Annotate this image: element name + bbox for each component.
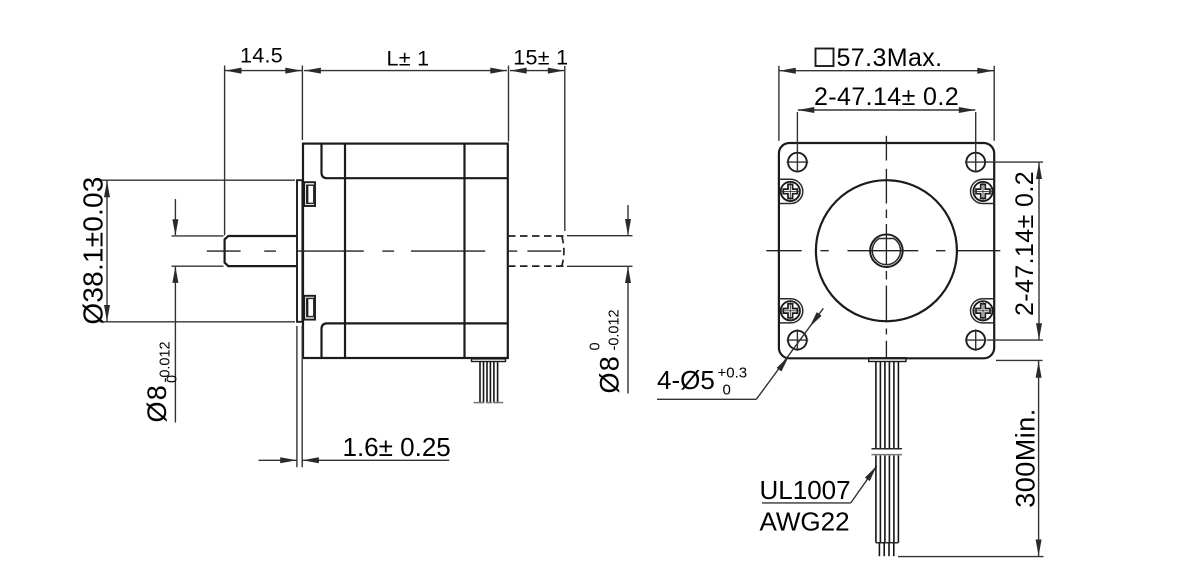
pilot boss circle front view [816,180,957,321]
dim dia8 left upper arrow line [174,199,176,235]
dim 38.1 line [106,181,108,322]
dim dia8 right top extension [567,235,633,237]
upper mounting tab inner [307,185,314,203]
dim dia8 right upper arrow line [627,205,629,235]
lower mounting tab inner [307,298,314,316]
svg-text:Ø8: Ø8 [142,384,172,422]
svg-text:2-47.14± 0.2: 2-47.14± 0.2 [1011,171,1039,316]
motor body side view [303,144,508,358]
lead wires left view [479,362,481,403]
svg-text:UL1007: UL1007 [760,475,851,505]
shaft centerline [207,250,241,252]
screw pocket bottom-right [971,299,995,323]
dim 14.5 / L shared extension line at body face [301,66,303,141]
screw bottom-left [781,301,800,320]
dim 1.6 line right segment [303,459,450,461]
svg-text:57.3Max.: 57.3Max. [837,44,943,72]
front endbell parting line vertical [344,144,346,358]
wire break marks [872,448,903,450]
lower mounting tab outer [304,296,315,320]
dim 38.1 extension line bottom [100,321,296,323]
mounting hole top-left [788,153,807,172]
screw pocket bottom-left [779,299,803,323]
stripped conductor ends [878,543,880,557]
wire exit connector front view [869,358,906,362]
upper mounting tab outer [304,182,315,206]
dim 14.5 extension line left (shaft tip) [224,66,226,236]
svg-text:1.6± 0.25: 1.6± 0.25 [343,432,451,462]
pilot boss plate [297,180,302,322]
dim 300min line [1038,361,1040,556]
dim 57.3 line [779,70,994,72]
dim 57.3 square symbol [816,49,834,67]
dim L extension line right (body rear face) [508,66,510,142]
vertical centerline front view [885,136,887,161]
bottom-right hole vertical tick [975,329,977,351]
wire exit connector left view [472,359,506,362]
bottom-left hole vertical tick [796,329,798,351]
svg-text:15± 1: 15± 1 [513,46,568,70]
dim 300min top extension [996,359,1043,361]
screw pocket top-right [971,179,995,203]
shaft with chamfer [225,236,297,266]
svg-text:14.5: 14.5 [240,44,283,68]
dim 2-47.14 top line [798,109,976,111]
svg-text:Ø8: Ø8 [595,355,625,393]
dim 14.5 line [225,70,303,72]
front plate bottom contour with rounded corner [322,323,508,358]
svg-text:+0.3: +0.3 [718,365,748,382]
dim 38.1 extension line top [100,179,296,181]
dim L line [304,70,507,72]
dim 1.6 line left segment [259,459,297,461]
shaft outer circle [870,234,903,267]
shaft inner circle with flat [872,239,900,265]
label 4-dia5 underline [657,398,756,400]
dim dia8 left lower arrow line [174,266,176,422]
lead wires front view lower [875,456,877,543]
dim dia8 right bottom extension [567,265,633,267]
dim 14.5 arrows [225,68,242,74]
rear shaft hidden top line [508,235,564,237]
label UL underline [762,502,851,504]
svg-text:-0.012: -0.012 [607,309,623,350]
front plate top contour with rounded corner [322,144,508,179]
motor front square [779,143,994,358]
label UL leader [851,466,877,503]
mounting hole top-right [966,153,985,172]
mounting hole bottom-left [788,331,807,350]
dim 15 line [510,70,564,72]
svg-text:300Min.: 300Min. [1011,408,1041,508]
upper tab inner left thick edge [306,185,308,203]
svg-text:2-47.14± 0.2: 2-47.14± 0.2 [814,83,959,111]
dim 15 extension line right (rear shaft end) [564,66,566,231]
dim 300min bottom extension [898,556,1044,558]
svg-text:4-Ø5: 4-Ø5 [657,365,715,395]
mounting hole bottom-right [966,331,985,350]
rear endbell parting line vertical [463,144,465,358]
wire jacket end [876,542,899,544]
svg-text:0: 0 [588,342,604,350]
screw bottom-right [973,301,992,320]
screw pocket top-left [779,179,803,203]
wire end ticks left view [474,402,485,404]
dim 2-47.14 right extension lines [986,161,1043,163]
dim dia8 right lower arrow line [627,267,629,394]
rear shaft hidden bottom line [508,265,564,267]
horizontal centerline front view [766,250,801,252]
dim 57.3 extension lines [778,66,780,141]
lead wires front view upper [875,362,877,449]
svg-text:-0.012: -0.012 [158,341,174,382]
screw top-left [781,182,800,201]
dim L arrows [304,68,321,74]
rear shaft hidden end cap [562,236,564,266]
dim 2-47.14 top extension lines through holes [796,112,798,172]
dim 15 arrows [510,68,527,74]
screw top-right [973,182,992,201]
svg-text:0: 0 [723,382,731,399]
dim 1.6 extension line left [296,326,298,467]
svg-text:AWG22: AWG22 [760,507,850,537]
dim dia8 left shaft-bottom extension [172,265,224,267]
dim dia8 left shaft-top extension [172,235,224,237]
svg-text:L± 1: L± 1 [387,47,430,71]
svg-text:Ø38.1±0.03: Ø38.1±0.03 [78,176,109,324]
dim 2-47.14 right line [1038,163,1040,340]
label 4-dia5 leader line [756,308,823,399]
dim 38.1 arrows [104,181,110,198]
dim 1.6 extension line right [301,326,303,467]
lower tab inner left thick edge [306,298,308,316]
